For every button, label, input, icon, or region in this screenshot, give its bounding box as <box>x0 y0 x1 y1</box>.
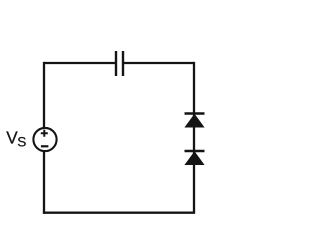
svg-text:S: S <box>17 135 26 150</box>
wire top-right segment <box>124 62 194 64</box>
label VS <box>6 128 26 150</box>
wire right segment <box>193 62 195 213</box>
diode D1 <box>185 114 205 128</box>
wire bottom segment <box>43 212 195 214</box>
wire left upper segment <box>43 62 45 129</box>
wire left lower segment <box>43 151 45 214</box>
capacitor C1 <box>116 51 123 76</box>
voltage source VS <box>33 128 56 151</box>
diode D2 <box>185 151 205 165</box>
wire top-left segment <box>44 62 115 64</box>
